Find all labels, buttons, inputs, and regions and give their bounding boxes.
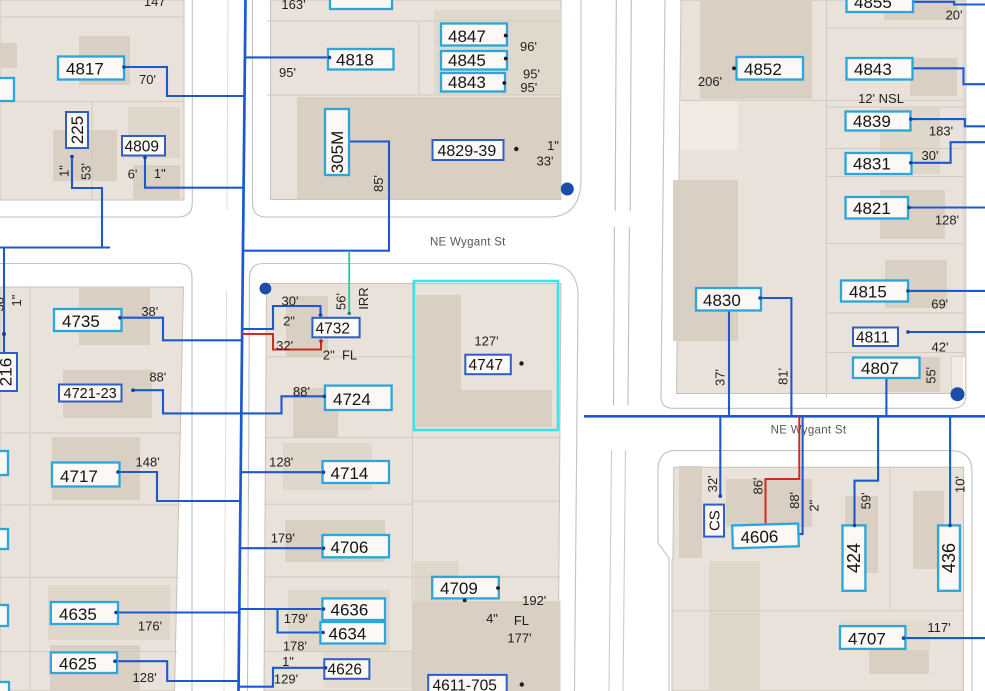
svg-text:88': 88' bbox=[149, 370, 166, 385]
service 4626 bbox=[239, 668, 326, 687]
service 305M bbox=[243, 142, 389, 251]
svg-text:4852: 4852 bbox=[744, 60, 782, 79]
service 4809 bbox=[145, 158, 244, 188]
box 436 (vertical) bbox=[938, 525, 960, 590]
svg-text:30': 30' bbox=[282, 294, 299, 309]
svg-text:4606: 4606 bbox=[740, 527, 778, 547]
reference dots (black) bbox=[463, 34, 736, 687]
box 4831 bbox=[846, 153, 912, 174]
crossing service 4721-23 / 4724 bbox=[133, 390, 324, 413]
box 4839 bbox=[846, 112, 911, 132]
box 4843 right bbox=[847, 58, 913, 80]
box 4707 bbox=[840, 626, 905, 649]
red line end dot 4732 bbox=[319, 339, 323, 343]
svg-text:4821: 4821 bbox=[853, 199, 891, 218]
svg-text:4818: 4818 bbox=[336, 51, 374, 70]
block bottom-middle parcels bbox=[264, 284, 561, 691]
box 4721-23 bbox=[59, 385, 122, 403]
svg-text:4707: 4707 bbox=[848, 630, 886, 649]
svg-text:177': 177' bbox=[507, 631, 531, 646]
svg-text:4855: 4855 bbox=[854, 0, 892, 12]
svg-text:1": 1" bbox=[154, 166, 166, 181]
service 4625 bbox=[115, 661, 239, 681]
service 4706 bbox=[240, 547, 324, 549]
svg-text:4636: 4636 bbox=[331, 601, 369, 620]
box 4735 bbox=[54, 309, 122, 331]
svg-text:206': 206' bbox=[698, 74, 722, 89]
svg-text:1": 1" bbox=[282, 654, 294, 669]
svg-text:6': 6' bbox=[128, 167, 138, 182]
box 4606 (tilted) bbox=[732, 524, 799, 549]
svg-text:4611-705: 4611-705 bbox=[433, 678, 497, 691]
service 4634 branch bbox=[278, 609, 324, 633]
svg-text:96': 96' bbox=[520, 39, 537, 54]
svg-text:1": 1" bbox=[547, 138, 559, 153]
service 225 bbox=[72, 157, 102, 248]
box 4830 bbox=[696, 288, 761, 311]
svg-text:424: 424 bbox=[844, 543, 864, 573]
lane line left street (faint) bbox=[224, 0, 228, 691]
svg-text:1": 1" bbox=[57, 165, 72, 177]
service 4732 bbox=[243, 306, 321, 329]
svg-text:128': 128' bbox=[133, 670, 157, 685]
svg-text:4809: 4809 bbox=[125, 139, 159, 156]
box 4732 bbox=[312, 318, 359, 338]
svg-text:305M: 305M bbox=[328, 131, 347, 174]
svg-text:2": 2" bbox=[807, 499, 822, 511]
box 4626 bbox=[324, 659, 369, 679]
svg-text:IRR: IRR bbox=[356, 287, 371, 309]
svg-text:4735: 4735 bbox=[62, 312, 100, 331]
box 4852 bbox=[737, 57, 804, 80]
water main left street bbox=[239, 0, 246, 691]
service 4818 bbox=[245, 56, 330, 58]
svg-text:4845: 4845 bbox=[448, 51, 486, 70]
service 4717 bbox=[118, 472, 241, 501]
curb right street east + top of right Wygant bbox=[661, 0, 966, 408]
svg-text:4625: 4625 bbox=[59, 655, 97, 674]
svg-text:59': 59' bbox=[859, 492, 874, 509]
box 4611-705 bbox=[428, 675, 507, 691]
svg-text:30': 30' bbox=[922, 148, 939, 163]
service 4821 bbox=[909, 206, 985, 208]
box 4821 bbox=[846, 197, 909, 219]
box 4717 bbox=[52, 463, 120, 487]
box 4706 bbox=[323, 535, 390, 557]
partial boxes left edge bbox=[0, 451, 8, 475]
highlighted parcel 4747 (cyan) bbox=[414, 281, 558, 430]
svg-text:1": 1" bbox=[9, 294, 24, 306]
svg-text:183': 183' bbox=[929, 124, 953, 139]
box 225 (vertical) bbox=[66, 112, 88, 148]
water main NE Wygant St right bbox=[584, 415, 985, 418]
svg-text:4721-23: 4721-23 bbox=[64, 386, 117, 402]
block top-right parcels bbox=[677, 0, 965, 394]
svg-text:81': 81' bbox=[776, 368, 791, 385]
box 4809 bbox=[122, 136, 165, 156]
svg-text:216: 216 bbox=[0, 358, 16, 386]
svg-text:32': 32' bbox=[276, 338, 293, 353]
svg-text:178': 178' bbox=[283, 639, 307, 654]
svg-text:4706: 4706 bbox=[331, 538, 369, 557]
box 4847 bbox=[441, 24, 507, 47]
box 4709 bbox=[432, 577, 499, 599]
svg-text:NE Wygant St: NE Wygant St bbox=[430, 237, 506, 249]
box 4811 bbox=[853, 328, 898, 347]
buildings bottom-middle bbox=[283, 295, 561, 691]
svg-text:CS: CS bbox=[707, 510, 724, 531]
svg-text:32': 32' bbox=[705, 475, 720, 492]
service 4855 bbox=[913, 2, 985, 5]
svg-text:88': 88' bbox=[787, 492, 802, 509]
box 4724 bbox=[325, 386, 392, 410]
svg-text:4634: 4634 bbox=[329, 625, 367, 644]
svg-text:4815: 4815 bbox=[849, 283, 887, 302]
svg-text:4831: 4831 bbox=[853, 155, 891, 174]
svg-text:4839: 4839 bbox=[853, 112, 891, 131]
svg-text:4830: 4830 bbox=[703, 291, 741, 310]
svg-text:4": 4" bbox=[486, 611, 498, 626]
block top-left parcels bbox=[0, 0, 184, 200]
svg-text:117': 117' bbox=[927, 620, 950, 635]
svg-text:4817: 4817 bbox=[66, 60, 104, 79]
svg-text:33': 33' bbox=[537, 154, 554, 169]
box 4845 bbox=[441, 51, 507, 70]
service 4815 bbox=[908, 290, 985, 292]
box 4625 bbox=[51, 652, 117, 673]
box CS (vertical) bbox=[704, 505, 724, 537]
svg-text:10': 10' bbox=[953, 476, 968, 493]
svg-text:69': 69' bbox=[931, 297, 948, 312]
svg-text:53': 53' bbox=[79, 163, 94, 180]
service 4714 bbox=[241, 471, 324, 473]
svg-text:176': 176' bbox=[138, 619, 162, 634]
buildings bottom-right bbox=[679, 466, 944, 691]
service 216 left edge bbox=[3, 248, 5, 354]
svg-text:4724: 4724 bbox=[333, 390, 371, 409]
block bottom-left parcels bbox=[0, 287, 184, 691]
red line end dot 4606 bbox=[764, 525, 768, 529]
box 305M (vertical) bbox=[325, 109, 349, 175]
service CS bbox=[719, 416, 721, 496]
block top-middle parcels bbox=[271, 0, 562, 200]
svg-text:88': 88' bbox=[293, 384, 310, 399]
teal irrigation line bbox=[348, 251, 350, 314]
svg-text:FL: FL bbox=[514, 613, 529, 628]
red fire line 4606 bbox=[766, 416, 800, 526]
svg-text:42': 42' bbox=[932, 340, 949, 355]
svg-text:148': 148' bbox=[136, 455, 160, 470]
median dashed lines right street bbox=[614, 0, 632, 405]
curb top-left block bbox=[0, 0, 192, 217]
svg-text:37': 37' bbox=[713, 369, 728, 386]
red fire line 4732 bbox=[242, 334, 321, 350]
block bottom-right parcels bbox=[672, 467, 964, 691]
svg-text:192': 192' bbox=[522, 593, 546, 608]
box 4815 bbox=[841, 281, 908, 302]
dimension labels rotated bbox=[0, 163, 968, 512]
svg-text:225: 225 bbox=[68, 116, 87, 144]
service 4811 bbox=[908, 331, 985, 333]
svg-text:20': 20' bbox=[946, 8, 963, 23]
box 216 (vertical) bbox=[0, 353, 17, 391]
box 424 (vertical) bbox=[843, 525, 866, 590]
curb south of right Wygant / bottom-right block bbox=[658, 451, 972, 691]
box 4829-39 bbox=[433, 140, 504, 160]
hydrant node dot right bbox=[951, 387, 965, 401]
svg-text:179': 179' bbox=[284, 611, 308, 626]
svg-text:4717: 4717 bbox=[60, 467, 98, 486]
svg-text:4709: 4709 bbox=[440, 579, 478, 598]
service 436 bbox=[949, 416, 951, 525]
teal line end dot bbox=[348, 312, 351, 315]
svg-text:179': 179' bbox=[271, 531, 295, 546]
box 4747 bbox=[465, 355, 511, 375]
svg-text:4829-39: 4829-39 bbox=[438, 143, 497, 160]
service 4606 bbox=[798, 417, 802, 541]
service 4707 bbox=[904, 637, 985, 639]
svg-text:4847: 4847 bbox=[448, 27, 486, 46]
svg-text:55': 55' bbox=[924, 367, 939, 384]
service 4635 bbox=[116, 611, 239, 613]
svg-text:4732: 4732 bbox=[316, 320, 350, 337]
box 4817 bbox=[58, 57, 124, 80]
curb top-middle block bbox=[253, 0, 582, 217]
svg-text:4635: 4635 bbox=[59, 605, 97, 624]
svg-text:38': 38' bbox=[0, 295, 7, 312]
box 4807 bbox=[853, 358, 920, 379]
svg-text:NE Wygant St: NE Wygant St bbox=[771, 425, 847, 437]
svg-text:86': 86' bbox=[751, 478, 766, 495]
svg-text:12' NSL: 12' NSL bbox=[858, 91, 904, 106]
buildings top-left bbox=[0, 36, 180, 199]
svg-text:4747: 4747 bbox=[469, 357, 503, 374]
svg-text:4807: 4807 bbox=[861, 359, 899, 378]
buildings bottom-left bbox=[48, 288, 170, 691]
svg-text:38': 38' bbox=[141, 304, 158, 319]
service 4830 south bbox=[728, 311, 730, 417]
svg-text:4843: 4843 bbox=[854, 60, 892, 79]
svg-text:128': 128' bbox=[269, 455, 293, 470]
hydrant node dot left bbox=[260, 283, 272, 295]
svg-text:85': 85' bbox=[371, 175, 386, 192]
box 4855 bbox=[847, 0, 914, 12]
svg-text:2" FL: 2" FL bbox=[323, 348, 357, 363]
svg-text:4714: 4714 bbox=[331, 464, 369, 483]
service 424 bbox=[855, 416, 879, 525]
curb bottom-left block bbox=[0, 264, 192, 691]
box 4636 bbox=[322, 598, 385, 620]
box partial top edge bbox=[330, 0, 392, 9]
main stub west y=247.5 bbox=[0, 246, 110, 248]
box 4843 mid bbox=[441, 73, 505, 92]
service 4839 bbox=[911, 119, 985, 126]
buildings top-right bbox=[673, 0, 963, 393]
svg-text:95': 95' bbox=[279, 65, 296, 80]
svg-text:147': 147' bbox=[144, 0, 168, 9]
box 4818 bbox=[328, 49, 394, 70]
narrow street lines below intersection bbox=[609, 450, 612, 691]
service 4735 bbox=[120, 318, 242, 341]
svg-text:95': 95' bbox=[520, 80, 537, 95]
service 4636 bbox=[239, 608, 323, 610]
hydrant node dot top-middle bbox=[561, 183, 574, 196]
svg-text:56': 56' bbox=[333, 293, 348, 310]
svg-text:4843: 4843 bbox=[448, 73, 486, 92]
service 4830 east bbox=[760, 298, 791, 416]
box partial left top bbox=[0, 78, 14, 101]
svg-text:127': 127' bbox=[474, 334, 498, 349]
svg-text:4626: 4626 bbox=[328, 662, 362, 679]
svg-text:2": 2" bbox=[283, 314, 295, 329]
box 4634 bbox=[320, 622, 385, 644]
service 4807 bbox=[885, 378, 887, 416]
box 4714 bbox=[323, 461, 390, 483]
svg-text:128': 128' bbox=[935, 213, 959, 228]
box 4635 bbox=[51, 602, 118, 624]
svg-text:70': 70' bbox=[139, 72, 156, 87]
buildings top-middle bbox=[297, 10, 561, 200]
service 4831 bbox=[911, 142, 985, 163]
svg-text:436: 436 bbox=[939, 543, 959, 573]
svg-text:129': 129' bbox=[274, 672, 298, 687]
svg-text:4811: 4811 bbox=[856, 330, 889, 347]
service 4817 bbox=[124, 67, 245, 96]
curb bottom-middle block bbox=[248, 264, 579, 691]
svg-text:163': 163' bbox=[281, 0, 305, 12]
service 4843 right bbox=[912, 68, 985, 84]
